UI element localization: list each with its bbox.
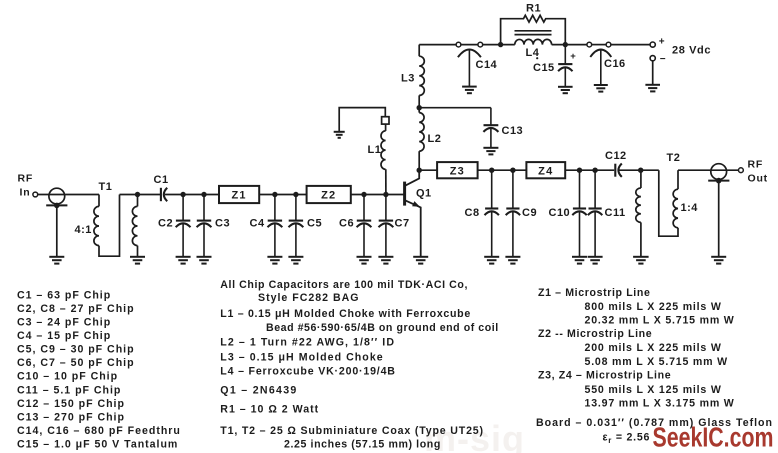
svg-text:C5, C9 – 30 pF Chip: C5, C9 – 30 pF Chip — [17, 344, 135, 356]
ground (C4) — [267, 257, 282, 264]
node C3 node — [201, 192, 206, 197]
node C4 node — [272, 192, 277, 197]
ground (C14) — [462, 87, 477, 94]
svg-text:C15 – 1.0 μF 50 V Tantalum: C15 – 1.0 μF 50 V Tantalum — [17, 438, 178, 450]
capacitor C15 (tantalum) — [558, 45, 572, 87]
svg-text:In: In — [20, 187, 31, 199]
ground (C6) — [357, 257, 372, 264]
transformer T1 secondary winding — [137, 195, 139, 207]
svg-text:Z3: Z3 — [450, 165, 465, 177]
ground (T2) — [633, 257, 649, 264]
wire Z1 to Z2 — [259, 194, 306, 196]
svg-text:L2 – 1 Turn #22 AWG, 1/8′′ ID: L2 – 1 Turn #22 AWG, 1/8′′ ID — [220, 337, 395, 349]
svg-text:C15: C15 — [533, 62, 555, 74]
capacitor C6 — [357, 195, 372, 258]
svg-text:Z4: Z4 — [538, 165, 553, 177]
node C11 node — [592, 168, 597, 173]
svg-text:C6: C6 — [339, 218, 354, 230]
capacitor C9 — [506, 170, 520, 257]
transistor Q1 emitter arrow — [412, 201, 420, 207]
svg-text:SeekIC.com: SeekIC.com — [653, 422, 774, 453]
svg-text:T1: T1 — [99, 181, 113, 193]
capacitor C11 — [588, 170, 602, 257]
node feedthru C16 left (open) — [587, 42, 592, 47]
microstrip Z4 — [526, 162, 565, 178]
ground (C2) — [176, 257, 191, 264]
capacitor C16 (feedthru) — [590, 50, 611, 85]
svg-text:C11: C11 — [605, 207, 626, 219]
svg-text:C4: C4 — [250, 218, 265, 230]
svg-text:C1 – 63 pF Chip: C1 – 63 pF Chip — [17, 289, 111, 301]
svg-text:−: − — [660, 54, 666, 65]
svg-text:L1: L1 — [368, 144, 382, 156]
node +28V terminal — [650, 42, 655, 47]
capacitor C14 (feedthru) — [458, 49, 481, 86]
text: microstrip list — [536, 287, 773, 429]
svg-text:C1: C1 — [154, 174, 169, 186]
ground (L1 top) — [339, 108, 385, 132]
svg-text:C2, C8 – 27 pF Chip: C2, C8 – 27 pF Chip — [17, 303, 135, 315]
text: notes column — [220, 279, 498, 451]
svg-text:Z2 -- Microstrip Line: Z2 -- Microstrip Line — [538, 328, 652, 340]
node C8 node — [489, 168, 494, 173]
svg-text:Out: Out — [748, 173, 768, 185]
svg-text:C16: C16 — [604, 58, 626, 70]
transformer T1 primary winding — [98, 195, 100, 207]
svg-text:C14: C14 — [476, 59, 498, 71]
svg-text:All Chip Capacitors are 100 mi: All Chip Capacitors are 100 mil TDK·ACI … — [220, 279, 468, 291]
svg-text:2.25 inches (57.15 mm) long: 2.25 inches (57.15 mm) long — [284, 439, 441, 451]
svg-text:C4 – 15 pF Chip: C4 – 15 pF Chip — [17, 330, 111, 342]
svg-text:C13 – 270 pF Chip: C13 – 270 pF Chip — [17, 411, 125, 423]
node RF In terminal — [33, 192, 38, 197]
wire C12 to T2 — [619, 169, 658, 171]
svg-text:C10: C10 — [549, 207, 571, 219]
svg-text:R1 – 10 Ω 2 Watt: R1 – 10 Ω 2 Watt — [220, 404, 319, 416]
ground (T1 secondary) — [130, 257, 145, 264]
inductor L2 — [418, 151, 420, 170]
svg-text:Style FC282 BAG: Style FC282 BAG — [258, 292, 360, 304]
svg-text:C9: C9 — [522, 207, 537, 219]
capacitor C1 (series) — [161, 188, 167, 201]
node feedthru C16 right (open) — [606, 42, 611, 47]
capacitor C4 — [268, 195, 283, 258]
svg-text:C2: C2 — [158, 218, 173, 230]
svg-text:RF: RF — [18, 173, 34, 185]
inductor L1 — [385, 124, 387, 131]
node C10 node — [577, 168, 582, 173]
capacitor C2 — [176, 195, 191, 258]
node RF Out terminal — [739, 168, 744, 173]
svg-text:Bead #56·590·65/4B on ground e: Bead #56·590·65/4B on ground end of coil — [266, 322, 499, 334]
svg-text:C8: C8 — [465, 207, 480, 219]
connector J2 (RF Out coax) — [708, 164, 729, 257]
node C2 node — [180, 192, 185, 197]
ground (C10) — [572, 257, 587, 264]
svg-text:C6, C7 – 50 pF Chip: C6, C7 – 50 pF Chip — [17, 357, 135, 369]
node R1/L4 right — [563, 42, 568, 47]
ground (supply) — [645, 85, 660, 92]
capacitor C12 (series) — [615, 164, 622, 177]
svg-text:Q1 – 2N6439: Q1 – 2N6439 — [220, 385, 297, 397]
svg-text:C14, C16 – 680 pF Feedthru: C14, C16 – 680 pF Feedthru — [17, 425, 181, 437]
ground (C11) — [588, 257, 603, 264]
connector J1 (RF In coax) — [46, 188, 67, 257]
wire node to C13 — [419, 107, 491, 109]
node -28V terminal — [650, 56, 655, 61]
svg-text:200 mils L X 225 mils W: 200 mils L X 225 mils W — [585, 342, 722, 354]
svg-text:L2: L2 — [428, 133, 442, 145]
node T1 secondary tap — [135, 192, 140, 197]
svg-text:T2: T2 — [667, 152, 681, 164]
ground (C8) — [484, 257, 499, 264]
node T2 tap — [638, 168, 643, 173]
node Q1 collector — [417, 168, 422, 173]
ground (RF In) — [49, 257, 64, 264]
ground (C16) — [594, 85, 608, 92]
node feedthru C14 left (open) — [456, 42, 461, 47]
inductor L3 — [418, 95, 420, 107]
svg-text:R1: R1 — [526, 3, 541, 15]
wire C1 to Z1 — [165, 194, 219, 196]
svg-text:C12 – 150 pF Chip: C12 – 150 pF Chip — [17, 398, 125, 410]
wire -terminal to ground — [652, 61, 654, 84]
svg-text:Z2: Z2 — [321, 190, 336, 202]
svg-text:C5: C5 — [307, 218, 322, 230]
svg-text:C13: C13 — [502, 125, 524, 137]
svg-text:Q1: Q1 — [416, 188, 432, 200]
svg-text:C10 – 10 pF Chip: C10 – 10 pF Chip — [17, 371, 118, 383]
text: capacitor list — [17, 289, 181, 450]
capacitor C5 — [289, 195, 304, 258]
svg-text:C3 – 24 pF Chip: C3 – 24 pF Chip — [17, 317, 111, 329]
ground (Q1 emitter) — [413, 257, 428, 264]
svg-text:1:4: 1:4 — [681, 202, 699, 214]
wire top rail — [419, 44, 650, 46]
resistor R1 — [501, 15, 566, 44]
wire Z2 to Q1 base — [351, 194, 404, 196]
wire T1 output rail — [120, 194, 161, 196]
ground (RF Out) — [711, 257, 726, 264]
node C9 node — [510, 168, 515, 173]
svg-text:C7: C7 — [395, 218, 410, 230]
node feedthru C14 right (open) — [478, 42, 483, 47]
svg-text:C12: C12 — [605, 150, 627, 162]
svg-text:4:1: 4:1 — [75, 224, 92, 236]
svg-text:Z1 – Microstrip Line: Z1 – Microstrip Line — [538, 287, 650, 299]
svg-text:+: + — [570, 51, 576, 62]
ground (C7) — [378, 257, 393, 264]
svg-text:+: + — [659, 36, 665, 47]
svg-text:13.97 mm L X 3.175 mm W: 13.97 mm L X 3.175 mm W — [585, 397, 735, 409]
node L2/L3 node — [417, 105, 422, 110]
svg-text:RF: RF — [748, 159, 764, 171]
node C5 node — [293, 192, 298, 197]
capacitor C13 — [483, 108, 498, 148]
microstrip Z2 — [307, 186, 351, 203]
ground (C13) — [483, 148, 498, 155]
node R1/L4 left — [498, 42, 503, 47]
wire T2 to RF Out — [678, 169, 739, 171]
svg-text:Z1: Z1 — [231, 190, 246, 202]
svg-text:5.08 mm L X 5.715 mm W: 5.08 mm L X 5.715 mm W — [585, 356, 728, 368]
svg-text:L3 – 0.15 μH Molded Choke: L3 – 0.15 μH Molded Choke — [220, 351, 383, 363]
capacitor C3 — [197, 195, 212, 258]
wire collector rail — [419, 169, 614, 171]
ferrite bead (on L1) — [382, 117, 389, 124]
svg-text:T1, T2 – 25 Ω Subminiature Coa: T1, T2 – 25 Ω Subminiature Coax (Type UT… — [220, 425, 484, 437]
svg-text:550 mils L X 125 mils W: 550 mils L X 125 mils W — [585, 384, 722, 396]
transistor Q1 — [405, 170, 421, 257]
ground (C9) — [505, 257, 520, 264]
microstrip Z1 — [219, 186, 259, 203]
ground (C15) — [558, 87, 573, 93]
svg-text:L4 – Ferroxcube VK·200·19/4B: L4 – Ferroxcube VK·200·19/4B — [220, 366, 395, 378]
svg-text:L3: L3 — [401, 72, 415, 84]
svg-text:C3: C3 — [215, 218, 230, 230]
ground (C3) — [197, 257, 212, 264]
node L1/C7 node — [383, 192, 388, 197]
svg-text:800 mils L X 225 mils W: 800 mils L X 225 mils W — [585, 301, 722, 313]
svg-text:L1 – 0.15 μH Molded Choke with: L1 – 0.15 μH Molded Choke with Ferroxcub… — [220, 308, 471, 320]
svg-text:28 Vdc: 28 Vdc — [672, 44, 711, 56]
microstrip Z3 — [437, 162, 478, 178]
capacitor C10 — [572, 170, 586, 257]
transformer T2 first winding — [640, 170, 642, 188]
capacitor C7 — [379, 195, 394, 258]
transformer T2 second winding — [659, 170, 678, 236]
node C6 node — [361, 192, 366, 197]
wire RF In to T1 — [38, 194, 99, 196]
svg-text:Z3, Z4 – Microstrip Line: Z3, Z4 – Microstrip Line — [538, 369, 671, 381]
inductor L4 with core — [515, 39, 552, 44]
svg-text:C11 – 5.1 pF Chip: C11 – 5.1 pF Chip — [17, 384, 121, 396]
ground (C5) — [288, 257, 303, 264]
capacitor C8 — [485, 170, 499, 257]
svg-text:20.32 mm L X 5.715 mm W: 20.32 mm L X 5.715 mm W — [585, 315, 735, 327]
ground bars (L1 top) — [334, 132, 345, 138]
